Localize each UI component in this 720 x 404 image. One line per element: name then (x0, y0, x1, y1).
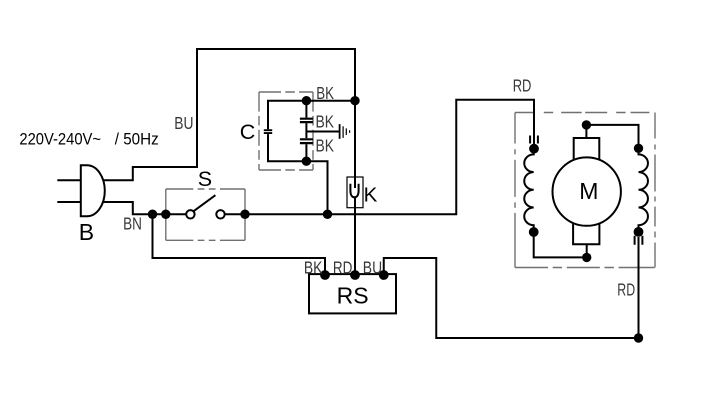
svg-text:BK: BK (316, 111, 335, 131)
svg-text:BN: BN (123, 213, 142, 233)
svg-text:BK: BK (316, 135, 335, 155)
svg-text:M: M (579, 178, 598, 204)
svg-text:B: B (79, 219, 94, 245)
svg-text:BU: BU (363, 257, 382, 277)
svg-text:BK: BK (316, 83, 334, 103)
svg-text:RD: RD (513, 76, 532, 96)
svg-text:K: K (364, 183, 378, 206)
svg-text:RD: RD (617, 280, 635, 300)
svg-text:220V-240V~: 220V-240V~ (19, 130, 101, 148)
svg-text:RD: RD (333, 257, 353, 277)
svg-text:RS: RS (337, 283, 369, 309)
svg-text:/ 50Hz: / 50Hz (115, 130, 159, 148)
svg-text:BU: BU (174, 113, 193, 133)
svg-text:C: C (240, 120, 256, 144)
svg-text:S: S (198, 167, 212, 191)
svg-text:BK: BK (304, 257, 323, 277)
